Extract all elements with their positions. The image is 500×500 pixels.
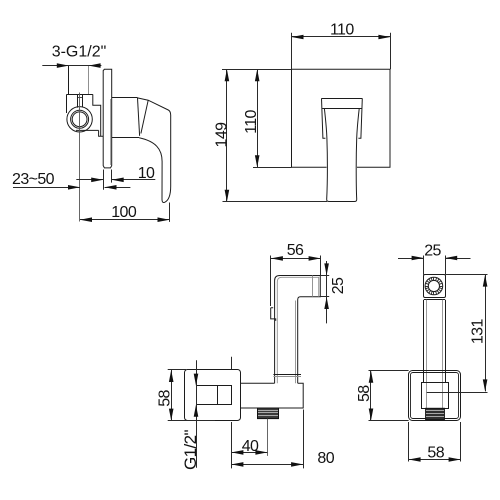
svg-text:25: 25 [330, 277, 347, 294]
svg-text:149: 149 [213, 122, 230, 148]
svg-text:58: 58 [356, 385, 373, 402]
svg-text:G1/2": G1/2" [181, 429, 200, 469]
svg-text:58: 58 [427, 445, 444, 462]
svg-text:56: 56 [287, 242, 304, 259]
svg-text:110: 110 [243, 109, 260, 133]
svg-text:58: 58 [157, 390, 174, 407]
svg-text:3-G1/2": 3-G1/2" [52, 44, 107, 61]
svg-text:100: 100 [111, 204, 137, 221]
svg-text:25: 25 [424, 243, 441, 260]
svg-text:80: 80 [317, 450, 334, 467]
svg-text:10: 10 [138, 165, 155, 182]
svg-text:23~50: 23~50 [12, 171, 55, 188]
svg-text:110: 110 [330, 21, 354, 38]
svg-text:40: 40 [242, 438, 259, 455]
svg-text:131: 131 [469, 319, 486, 345]
